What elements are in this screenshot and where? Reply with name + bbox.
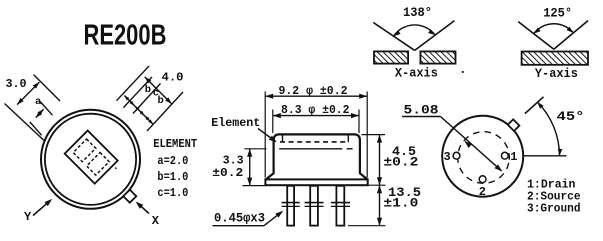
extension line G1 [123, 77, 152, 108]
dim b/c/b chain [124, 96, 153, 125]
svg-text:±1.0: ±1.0 [383, 196, 418, 210]
svg-text:9.2 φ ±0.2: 9.2 φ ±0.2 [279, 84, 348, 98]
dim 9.2 ext left [264, 92, 266, 178]
bottom view tab [508, 119, 520, 131]
extension line E1b [30, 122, 42, 135]
stray dot [462, 71, 464, 73]
Y-axis angle arc [534, 24, 574, 34]
extension line E1 [5, 104, 45, 141]
tab marker on circle [123, 190, 136, 203]
window tick left [282, 135, 284, 142]
svg-text:3: 3 [444, 150, 451, 164]
svg-text:138°: 138° [403, 6, 432, 20]
bottom view circle [442, 116, 523, 197]
extension line E0b [40, 102, 52, 116]
dim 8.3 ext right [358, 110, 360, 134]
element plane line [279, 148, 342, 150]
45 deg arc [537, 102, 559, 156]
svg-text:0.45φx3: 0.45φx3 [214, 212, 265, 226]
Y-axis V left line [518, 22, 554, 50]
dim 8.3 line [273, 115, 359, 117]
dim a line [36, 109, 44, 118]
dim 3.3 ext bottom [243, 185, 266, 187]
dim 4.0 line [145, 77, 172, 104]
X axis arrow [138, 203, 150, 213]
sensing element 1 (dashed) [73, 139, 96, 162]
svg-text:1: 1 [510, 150, 517, 164]
svg-text:Element: Element [211, 116, 260, 130]
pin ticks left [282, 202, 300, 204]
svg-text:2: 2 [479, 185, 486, 199]
window tick right [347, 135, 349, 142]
svg-text:X-axis: X-axis [395, 66, 438, 80]
horizontal reference line [523, 155, 566, 157]
svg-text:±0.2: ±0.2 [212, 166, 243, 180]
pin ticks right [331, 202, 350, 204]
dim 13.5 ext bottom [348, 225, 386, 227]
svg-text:Y-axis: Y-axis [535, 67, 578, 81]
svg-text:X: X [152, 214, 160, 228]
svg-text:±0.2: ±0.2 [383, 155, 418, 169]
svg-text:ELEMENT: ELEMENT [153, 138, 197, 151]
svg-text:3.0: 3.0 [6, 78, 27, 91]
svg-text:Y: Y [24, 210, 32, 224]
pin 2 hole [479, 176, 486, 183]
pin right [336, 186, 344, 226]
top view outer circle [41, 110, 140, 209]
svg-text:c=1.0: c=1.0 [157, 187, 188, 200]
extension line G3 [147, 92, 183, 131]
extension line G0 [117, 66, 150, 101]
X-axis hatched block left [374, 51, 408, 63]
pin circle (dashed) [453, 127, 514, 188]
pin left [287, 186, 294, 226]
extension line E0 [34, 75, 60, 101]
side view can body [266, 134, 367, 179]
dim 9.2 line [265, 95, 367, 97]
Y-axis V right line [554, 21, 588, 50]
X-axis V left line [373, 23, 414, 51]
Y axis arrow [33, 201, 50, 216]
svg-text:b=1.0: b=1.0 [157, 171, 188, 184]
pin ticks middle [305, 202, 324, 204]
svg-text:a=2.0: a=2.0 [157, 155, 188, 168]
dim 9.2 ext right [366, 92, 368, 178]
window dashed line [280, 141, 349, 143]
sensing element 2 (dashed) [87, 153, 110, 176]
X-axis hatched block right [420, 51, 455, 63]
dim 4.5 ext top [362, 134, 386, 136]
pin middle [310, 186, 318, 226]
dim 4.5/13.5 ext mid [369, 184, 386, 186]
dim 3.0 line [17, 82, 39, 105]
dim 4.5 line [379, 135, 381, 186]
side view flange [265, 179, 367, 185]
svg-text:5.08: 5.08 [404, 103, 439, 118]
dim 3.3 ext top [244, 148, 266, 150]
dim 5.08 leader [402, 116, 441, 118]
svg-text:a: a [35, 96, 42, 108]
svg-text:b: b [145, 84, 151, 96]
dim 0.45 leader [213, 225, 265, 227]
svg-text:125°: 125° [543, 6, 572, 20]
X-axis V right line [415, 21, 455, 51]
45 deg tick [525, 97, 544, 114]
extension line G2 [133, 83, 161, 113]
stray dot inside circle [115, 167, 117, 169]
svg-text:4.0: 4.0 [162, 72, 184, 85]
svg-text:RE200B: RE200B [84, 20, 167, 51]
Element leader [258, 129, 275, 142]
title RE200B [84, 20, 167, 51]
dim 8.3 ext left [272, 110, 274, 134]
dim 3.3 line [249, 149, 251, 186]
svg-text:b: b [158, 95, 164, 107]
svg-text:45°: 45° [557, 110, 585, 124]
element window (rotated square) [65, 131, 118, 184]
X-axis angle arc [394, 25, 436, 36]
svg-text:3:Ground: 3:Ground [527, 202, 581, 216]
top view inner circle [45, 114, 136, 205]
pin 1 hole [501, 152, 508, 159]
svg-text:8.3 φ ±0.2: 8.3 φ ±0.2 [281, 103, 350, 117]
dim 13.5 line [379, 185, 381, 226]
Y-axis hatched block [522, 52, 588, 65]
pin 3 hole [453, 152, 460, 159]
